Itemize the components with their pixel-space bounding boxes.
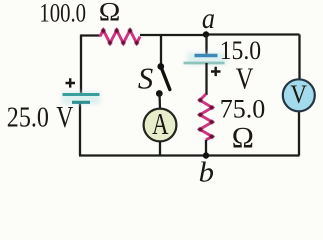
svg-text:Ω: Ω [98, 0, 120, 27]
battery B2 short plate (-) [195, 54, 218, 57]
svg-text:Ω: Ω [231, 122, 254, 155]
wire left (below battery to bottom corner) [79, 102, 81, 156]
battery B2 glow [187, 53, 227, 66]
node b dot [203, 152, 209, 158]
wire top (node a to right corner) [206, 33, 300, 35]
node a dot [203, 31, 209, 37]
svg-text:A: A [152, 107, 169, 141]
wire (resistor R2 to node b) [205, 140, 207, 156]
switch S bottom contact dot [156, 90, 163, 97]
battery B1 plus sign [66, 78, 76, 87]
svg-text:S: S [138, 62, 153, 96]
svg-text:V: V [236, 61, 254, 95]
wire right (top corner to voltmeter) [298, 35, 300, 81]
switch S wire stub (top) [160, 35, 162, 65]
wire (battery B2 to resistor R2) [205, 63, 207, 95]
svg-text:25.0: 25.0 [7, 102, 49, 133]
battery B1 25.0 V glow [62, 92, 100, 105]
voltmeter V1 circle [283, 79, 315, 111]
svg-text:100.0: 100.0 [39, 0, 86, 28]
ammeter lead wire (switch to meter) [158, 94, 161, 109]
battery B2 long plate (+) [184, 62, 225, 65]
wire top [81, 34, 101, 36]
svg-text:75.0: 75.0 [220, 94, 266, 123]
wire right (voltmeter to bottom corner) [298, 111, 300, 156]
resistor R2 dark apex accents [198, 98, 214, 139]
ammeter lead wire (meter to bottom wire) [159, 141, 161, 155]
svg-text:V: V [56, 100, 73, 133]
battery B1 short plate (-) [72, 101, 90, 104]
battery B1 long plate (+) [63, 93, 100, 96]
svg-text:V: V [290, 81, 307, 110]
switch S top contact dot [157, 63, 164, 70]
resistor R2 75.0 ohm (vertical zigzag) [200, 94, 212, 140]
wire top (resistor to node a) [140, 34, 206, 36]
svg-text:b: b [199, 156, 214, 185]
svg-text:a: a [202, 3, 215, 36]
wire bottom [79, 154, 300, 156]
switch S blade [161, 67, 170, 90]
resistor R1 dark apex accents [101, 29, 139, 45]
ammeter A1 circle [144, 109, 177, 142]
battery B2 wire stub (node a down) [205, 35, 207, 55]
wire left (top segment above battery) [80, 35, 82, 95]
battery B2 plus sign [211, 67, 221, 76]
resistor R1 100.0 ohm (zigzag) [100, 30, 140, 43]
